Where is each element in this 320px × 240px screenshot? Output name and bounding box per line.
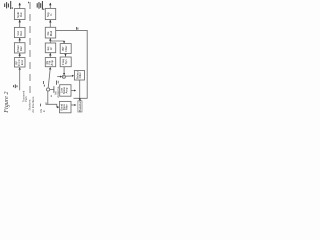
arrowhead up into A2 bottom: [19, 38, 21, 41]
wire out of box B1 top: [49, 3, 51, 8]
branch wire from junction to C1: [50, 41, 64, 43]
svg-text:Baseband: Baseband: [78, 99, 82, 112]
wire into mixer from left: [57, 76, 61, 78]
antenna bar: [53, 86, 55, 93]
small label below mixer stub: [56, 81, 58, 85]
label scribble above box B1 (rotated numeral): [37, 1, 44, 10]
box A4: [14, 58, 25, 67]
wire A3 to A2: [19, 38, 21, 43]
arrowhead up into B2 bottom: [49, 38, 51, 41]
box D1: [60, 85, 71, 97]
wire B4 to B3: [49, 53, 51, 58]
svg-text:Amp: Amp: [65, 87, 69, 93]
arrowhead up into A3 bottom: [19, 53, 21, 56]
wire circulator up to B4: [48, 69, 50, 88]
numeral speck near A1 top right: [28, 2, 30, 4]
arrowhead into mixer left: [60, 76, 62, 78]
rotated label below bottom wire: [39, 104, 41, 107]
box A3: [14, 43, 25, 53]
box B2: [45, 27, 55, 38]
antenna marks left of wire end: [14, 84, 17, 88]
arrowhead up at top of A1 wire: [19, 3, 21, 6]
arrowhead up into B4 bottom: [49, 67, 51, 70]
arrowhead into E1: [72, 75, 74, 77]
svg-text:Dec: Dec: [19, 46, 23, 52]
box A2: [14, 27, 25, 37]
wire B3 to B2 with junction: [49, 38, 51, 43]
wire E1 bottom down to bottom wire: [79, 80, 81, 98]
wire out of box A1 top: [19, 3, 21, 9]
box D2: [60, 101, 72, 112]
arrowhead up at top of B1 wire: [49, 3, 51, 6]
svg-text:Filter: Filter: [65, 104, 69, 110]
wire circulator down: [47, 91, 49, 104]
svg-text:Dec: Dec: [19, 30, 23, 36]
wire A4 to A3: [19, 53, 21, 58]
arrowhead up into B1 bottom: [49, 20, 51, 23]
box E1: [74, 71, 84, 81]
box B3: [45, 43, 55, 53]
arrowhead up into B3 bottom: [49, 53, 51, 56]
wire D2 right: [71, 104, 75, 106]
wire C2 down to mixer: [63, 67, 65, 74]
arrowhead on D2 wire: [74, 104, 76, 106]
svg-text:Amp: Amp: [50, 59, 54, 65]
arrowhead down into mixer: [63, 73, 65, 75]
wire D1 right: [71, 90, 75, 92]
arrowhead up into A4 bottom: [19, 67, 21, 70]
arrowhead down into C1 top: [63, 41, 65, 43]
box B1: [45, 8, 55, 19]
mixer dot: [63, 76, 64, 77]
wire circulator right to antenna bar: [50, 89, 54, 91]
arrowhead in C1-C2 gap: [64, 54, 66, 57]
box C1: [60, 44, 71, 54]
circulator circle: [47, 88, 50, 91]
svg-text:Filter: Filter: [78, 72, 82, 78]
long wire from B2 right around to bottom right: [56, 30, 87, 98]
arrowhead right into D2: [57, 106, 59, 108]
wire from antenna up to A4: [19, 69, 21, 90]
svg-text:End: End: [20, 60, 24, 65]
svg-text:Air Interface: Air Interface: [31, 96, 35, 113]
label 216 above long wire: [76, 27, 78, 30]
wire A2 to A1: [19, 20, 21, 28]
wire C1 to C2: [65, 54, 67, 58]
svg-text:Out: Out: [19, 12, 23, 17]
svg-text:Figure 2: Figure 2: [3, 92, 10, 114]
arrowhead on D1 wire: [74, 90, 76, 92]
box B4: [45, 58, 55, 67]
svg-text:lzr: lzr: [49, 47, 53, 50]
svg-text:Syn: Syn: [64, 59, 68, 64]
numeral speck below circulator right: [50, 95, 52, 97]
baseband label narrow box: [78, 101, 82, 112]
svg-text:Filter: Filter: [64, 45, 68, 51]
arrowhead up into A1 bottom: [19, 20, 21, 23]
box C2: [60, 57, 71, 67]
wire B2 to B1: [49, 20, 51, 28]
dashed separator line (air interface): [29, 2, 31, 95]
small label left of B4 wire: [42, 81, 44, 84]
box A1: [14, 9, 25, 20]
arrowhead down into baseband label: [79, 98, 81, 100]
wire bottom horizontal to receiver: [46, 102, 58, 107]
tick left of circulator: [43, 85, 45, 87]
svg-text:Mod: Mod: [49, 30, 53, 36]
label scribble top-left (rotated numeral): [5, 1, 13, 9]
wire mixer to box E1: [66, 75, 73, 77]
mixer circle: [62, 75, 65, 78]
